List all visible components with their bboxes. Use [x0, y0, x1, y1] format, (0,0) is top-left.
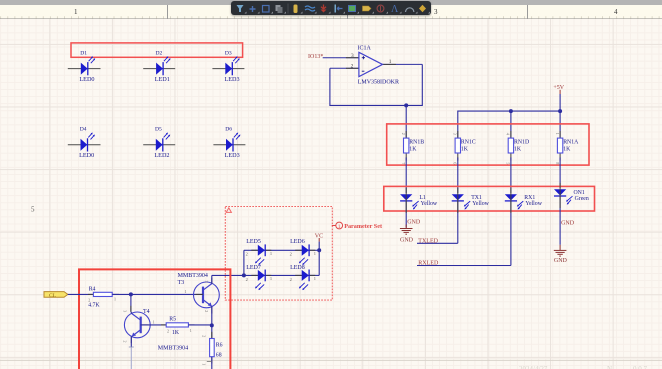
svg-text:R6: R6: [216, 343, 223, 349]
toolbar icon: red down arrow: [321, 5, 327, 13]
transistor Q T4 MMBT3904: [123, 306, 189, 352]
svg-text:1K: 1K: [461, 147, 469, 153]
svg-text:1: 1: [190, 328, 192, 333]
svg-text:1: 1: [153, 320, 155, 325]
toolbar icon: plus: [250, 6, 256, 12]
op-amp U1 IC1A: [351, 46, 399, 86]
svg-text:GND: GND: [407, 220, 421, 226]
sheet title block text (clipped): [519, 365, 648, 369]
LED D5: [143, 126, 175, 159]
svg-text:LED0: LED0: [79, 76, 94, 83]
wire CL to R4: [68, 293, 94, 295]
svg-text:0.0.7: 0.0.7: [633, 365, 648, 369]
wire T3 collector up to LED7 row: [211, 275, 213, 283]
svg-text:2: 2: [290, 277, 292, 282]
svg-text:TX1: TX1: [471, 195, 482, 201]
svg-text:68: 68: [216, 353, 222, 359]
wire junction down to RN1B: [405, 105, 407, 138]
svg-text:Λ: Λ: [391, 4, 399, 15]
svg-text:D3: D3: [225, 51, 232, 57]
svg-text:IO13*: IO13*: [308, 54, 323, 60]
warning triangle marker: [226, 208, 231, 213]
svg-text:3: 3: [453, 133, 458, 135]
svg-text:RN1D: RN1D: [514, 139, 529, 145]
svg-text:1: 1: [201, 363, 206, 365]
resistor RN1A 1K: [555, 131, 579, 164]
wire R5 to emitter node: [188, 324, 211, 326]
svg-text:R5: R5: [169, 317, 176, 323]
wire VC stub: [318, 238, 320, 242]
svg-text:1: 1: [389, 59, 392, 65]
svg-text:LED7: LED7: [246, 265, 261, 271]
svg-text:7: 7: [401, 162, 406, 164]
node emitter/R5/R6: [210, 323, 214, 327]
LED L1 Yellow: [400, 188, 438, 228]
floating toolbar: [231, 1, 431, 15]
svg-text:GND: GND: [400, 237, 414, 243]
LED TX1 Yellow: [452, 188, 490, 244]
toolbar icon: arc: [406, 8, 414, 12]
svg-text:1K: 1K: [409, 147, 417, 153]
svg-text:2: 2: [246, 252, 248, 257]
toolbar icon: yellow diamond: [419, 5, 426, 12]
svg-text:D2: D2: [156, 51, 163, 57]
R6 pin tick: [207, 361, 212, 363]
svg-text:2: 2: [88, 297, 90, 302]
feedback loop wire: [330, 64, 422, 105]
LED LED8: [290, 265, 316, 290]
selection box indicator LEDs: [384, 186, 595, 211]
svg-text:LED0: LED0: [79, 152, 94, 159]
svg-text:3: 3: [351, 53, 354, 59]
svg-text:LED3: LED3: [225, 76, 240, 83]
svg-text:4.7K: 4.7K: [88, 303, 100, 309]
svg-text:1: 1: [185, 289, 187, 294]
wire node to R6: [211, 325, 213, 338]
svg-text:LED1: LED1: [155, 76, 170, 83]
svg-text:1: 1: [114, 297, 116, 302]
svg-text:2: 2: [401, 133, 406, 135]
callout circled 1: [336, 222, 343, 229]
svg-text:1: 1: [314, 251, 316, 256]
toolbar icon: filter funnel: [237, 5, 244, 12]
svg-text:RN1B: RN1B: [409, 139, 424, 145]
svg-text:ON1: ON1: [574, 190, 585, 196]
svg-text:L1: L1: [419, 195, 426, 201]
LED D4: [68, 126, 101, 159]
svg-text:MMBT3904: MMBT3904: [158, 345, 188, 351]
op-amp pin stubs: [346, 58, 396, 69]
ground (ON1): [554, 245, 567, 256]
resistor RN1C 1K: [453, 131, 476, 164]
svg-text:1: 1: [338, 224, 341, 230]
LED D2: [143, 51, 175, 83]
svg-text:5: 5: [506, 162, 511, 164]
node rail-RN1D: [509, 109, 513, 113]
resistor R4 4.7K: [88, 286, 119, 308]
wire rail to RN1A: [559, 111, 561, 138]
node rail-RN1A: [558, 109, 562, 113]
toolbar icon: wavy wires: [305, 6, 315, 11]
node row2 left: [242, 273, 246, 277]
svg-text:1K: 1K: [563, 147, 571, 153]
node VC row1: [317, 248, 321, 252]
net port CL: [44, 292, 68, 299]
wire left vertical row1-row2: [243, 250, 245, 275]
svg-text:1: 1: [74, 8, 78, 16]
+5V rail wire: [458, 111, 560, 138]
wire T3 emitter down: [211, 306, 213, 325]
svg-text:2: 2: [201, 335, 206, 337]
svg-text:1: 1: [270, 276, 272, 281]
svg-text:6: 6: [453, 162, 458, 164]
wire rail to RN1D: [510, 111, 512, 138]
wire RN1B to L1: [405, 157, 407, 193]
svg-text:GND: GND: [561, 221, 575, 227]
toolbar icon: letter A: [391, 4, 399, 15]
svg-text:Yellow: Yellow: [421, 201, 438, 207]
LED LED7: [246, 265, 273, 290]
svg-text:RN1C: RN1C: [461, 139, 476, 145]
svg-text:2: 2: [167, 329, 169, 334]
toolbar icon: maroon no-connect circle: [377, 5, 384, 12]
svg-text:4: 4: [614, 8, 618, 16]
wire R6 down: [211, 357, 213, 369]
svg-text:LED2: LED2: [154, 152, 169, 159]
wire RN1D to RX1: [510, 157, 512, 193]
svg-text:D5: D5: [155, 126, 162, 132]
selection box resistors: [387, 124, 589, 165]
svg-text:8: 8: [555, 162, 560, 164]
node R4/T4 junction: [129, 292, 133, 296]
resistor RN1D 1K: [506, 131, 530, 164]
ground (L1): [400, 225, 413, 235]
svg-text:5: 5: [31, 206, 35, 214]
svg-text:1: 1: [314, 276, 316, 281]
svg-text:3: 3: [123, 310, 128, 312]
svg-text:LED5: LED5: [246, 239, 261, 245]
toolbar icon: yellow bar: [294, 5, 298, 14]
svg-text:1: 1: [555, 133, 560, 135]
wire junction down to T4 collector: [130, 294, 132, 311]
svg-text:Yellow: Yellow: [525, 201, 542, 207]
LED D3: [212, 51, 244, 83]
svg-text:TXLED: TXLED: [418, 238, 438, 244]
wire RN1A to ON1: [559, 157, 561, 188]
svg-text:2: 2: [351, 63, 354, 69]
callout line: [332, 225, 336, 227]
svg-text:3: 3: [204, 281, 209, 283]
svg-text:LED3: LED3: [225, 152, 240, 159]
svg-text:Yellow: Yellow: [472, 201, 489, 207]
wire LED7 row: [212, 274, 258, 276]
toolbar icon: bar-arrow: [335, 5, 343, 13]
LED D6: [213, 126, 245, 159]
svg-text:2: 2: [204, 310, 209, 312]
svg-text:2024/4/27: 2024/4/27: [519, 365, 548, 369]
svg-text:RX1: RX1: [524, 195, 535, 201]
wire T4 collector stub: [131, 312, 132, 314]
wire T4 emitter down: [130, 336, 132, 347]
svg-text:2: 2: [290, 252, 292, 257]
LED ON1 Green: [554, 183, 589, 245]
svg-text:1: 1: [270, 251, 272, 256]
wire TX1 to TXLED: [417, 242, 458, 244]
node: junction op-amp loop to RN1B: [404, 103, 408, 107]
wire RX1 to RXLED: [417, 265, 511, 267]
svg-text:IC1A: IC1A: [358, 46, 372, 52]
svg-text:2: 2: [246, 277, 248, 282]
svg-text:+5V: +5V: [553, 85, 564, 91]
wire pin1 output: [383, 63, 423, 65]
svg-text:MMBT3904: MMBT3904: [178, 273, 208, 279]
LED D1: [68, 51, 101, 83]
resistor R6 68: [201, 332, 222, 365]
svg-text:LED6: LED6: [290, 239, 305, 245]
svg-text:D6: D6: [225, 126, 232, 132]
toolbar separator: [288, 4, 289, 14]
resistor R5 1K: [161, 317, 195, 337]
toolbar icon: square outline: [263, 6, 270, 13]
resistor RN1B 1K: [401, 131, 424, 164]
selection box D1-D3: [71, 43, 243, 57]
power flag +5V: [553, 85, 564, 111]
svg-text:N: N: [607, 365, 612, 369]
toolbar icon: green rect: [349, 6, 356, 12]
dropdown ticks: [245, 12, 431, 14]
svg-text:RXLED: RXLED: [418, 261, 439, 267]
svg-text:D1: D1: [80, 51, 87, 57]
svg-text:1K: 1K: [514, 147, 522, 153]
sheet column ruler band: [0, 5, 662, 20]
wire right vertical row1-row2: [318, 250, 320, 275]
svg-text:T3: T3: [178, 280, 185, 286]
svg-text:2: 2: [123, 341, 128, 343]
svg-text:D4: D4: [80, 126, 87, 132]
wire T4 base to R5: [141, 324, 167, 326]
LED RX1 Yellow: [505, 188, 543, 266]
svg-text:Parameter Set: Parameter Set: [344, 223, 383, 230]
LED LED5: [246, 239, 273, 265]
svg-text:R4: R4: [89, 286, 96, 292]
wire R4 to T3 base: [112, 293, 203, 295]
svg-text:GND: GND: [554, 258, 568, 264]
top gray strip: [0, 0, 662, 5]
svg-text:CL: CL: [49, 293, 57, 299]
svg-text:LMV358IDOKR: LMV358IDOKR: [358, 79, 399, 85]
sheet frame bottom line: [0, 359, 662, 361]
svg-text:Green: Green: [575, 196, 589, 202]
wire pin2: [330, 67, 359, 69]
transistor Q T3 MMBT3904: [178, 273, 220, 313]
wire LED5 row: [244, 249, 258, 251]
svg-text:RN1A: RN1A: [563, 139, 579, 145]
svg-text:LED8: LED8: [290, 265, 305, 271]
wire pin3: [323, 57, 359, 59]
svg-text:4: 4: [506, 133, 511, 135]
dashed annotation box: [225, 207, 332, 301]
LED LED6: [290, 239, 316, 265]
svg-text:3: 3: [434, 8, 438, 16]
toolbar icon: pages: [276, 5, 283, 13]
wire VC down to LED row: [318, 242, 320, 251]
wire RN1C to TX1: [457, 157, 459, 193]
toolbar icon: yellow net flag: [363, 6, 372, 11]
selection box transistor circuit: [79, 269, 230, 369]
svg-text:1K: 1K: [172, 330, 180, 336]
